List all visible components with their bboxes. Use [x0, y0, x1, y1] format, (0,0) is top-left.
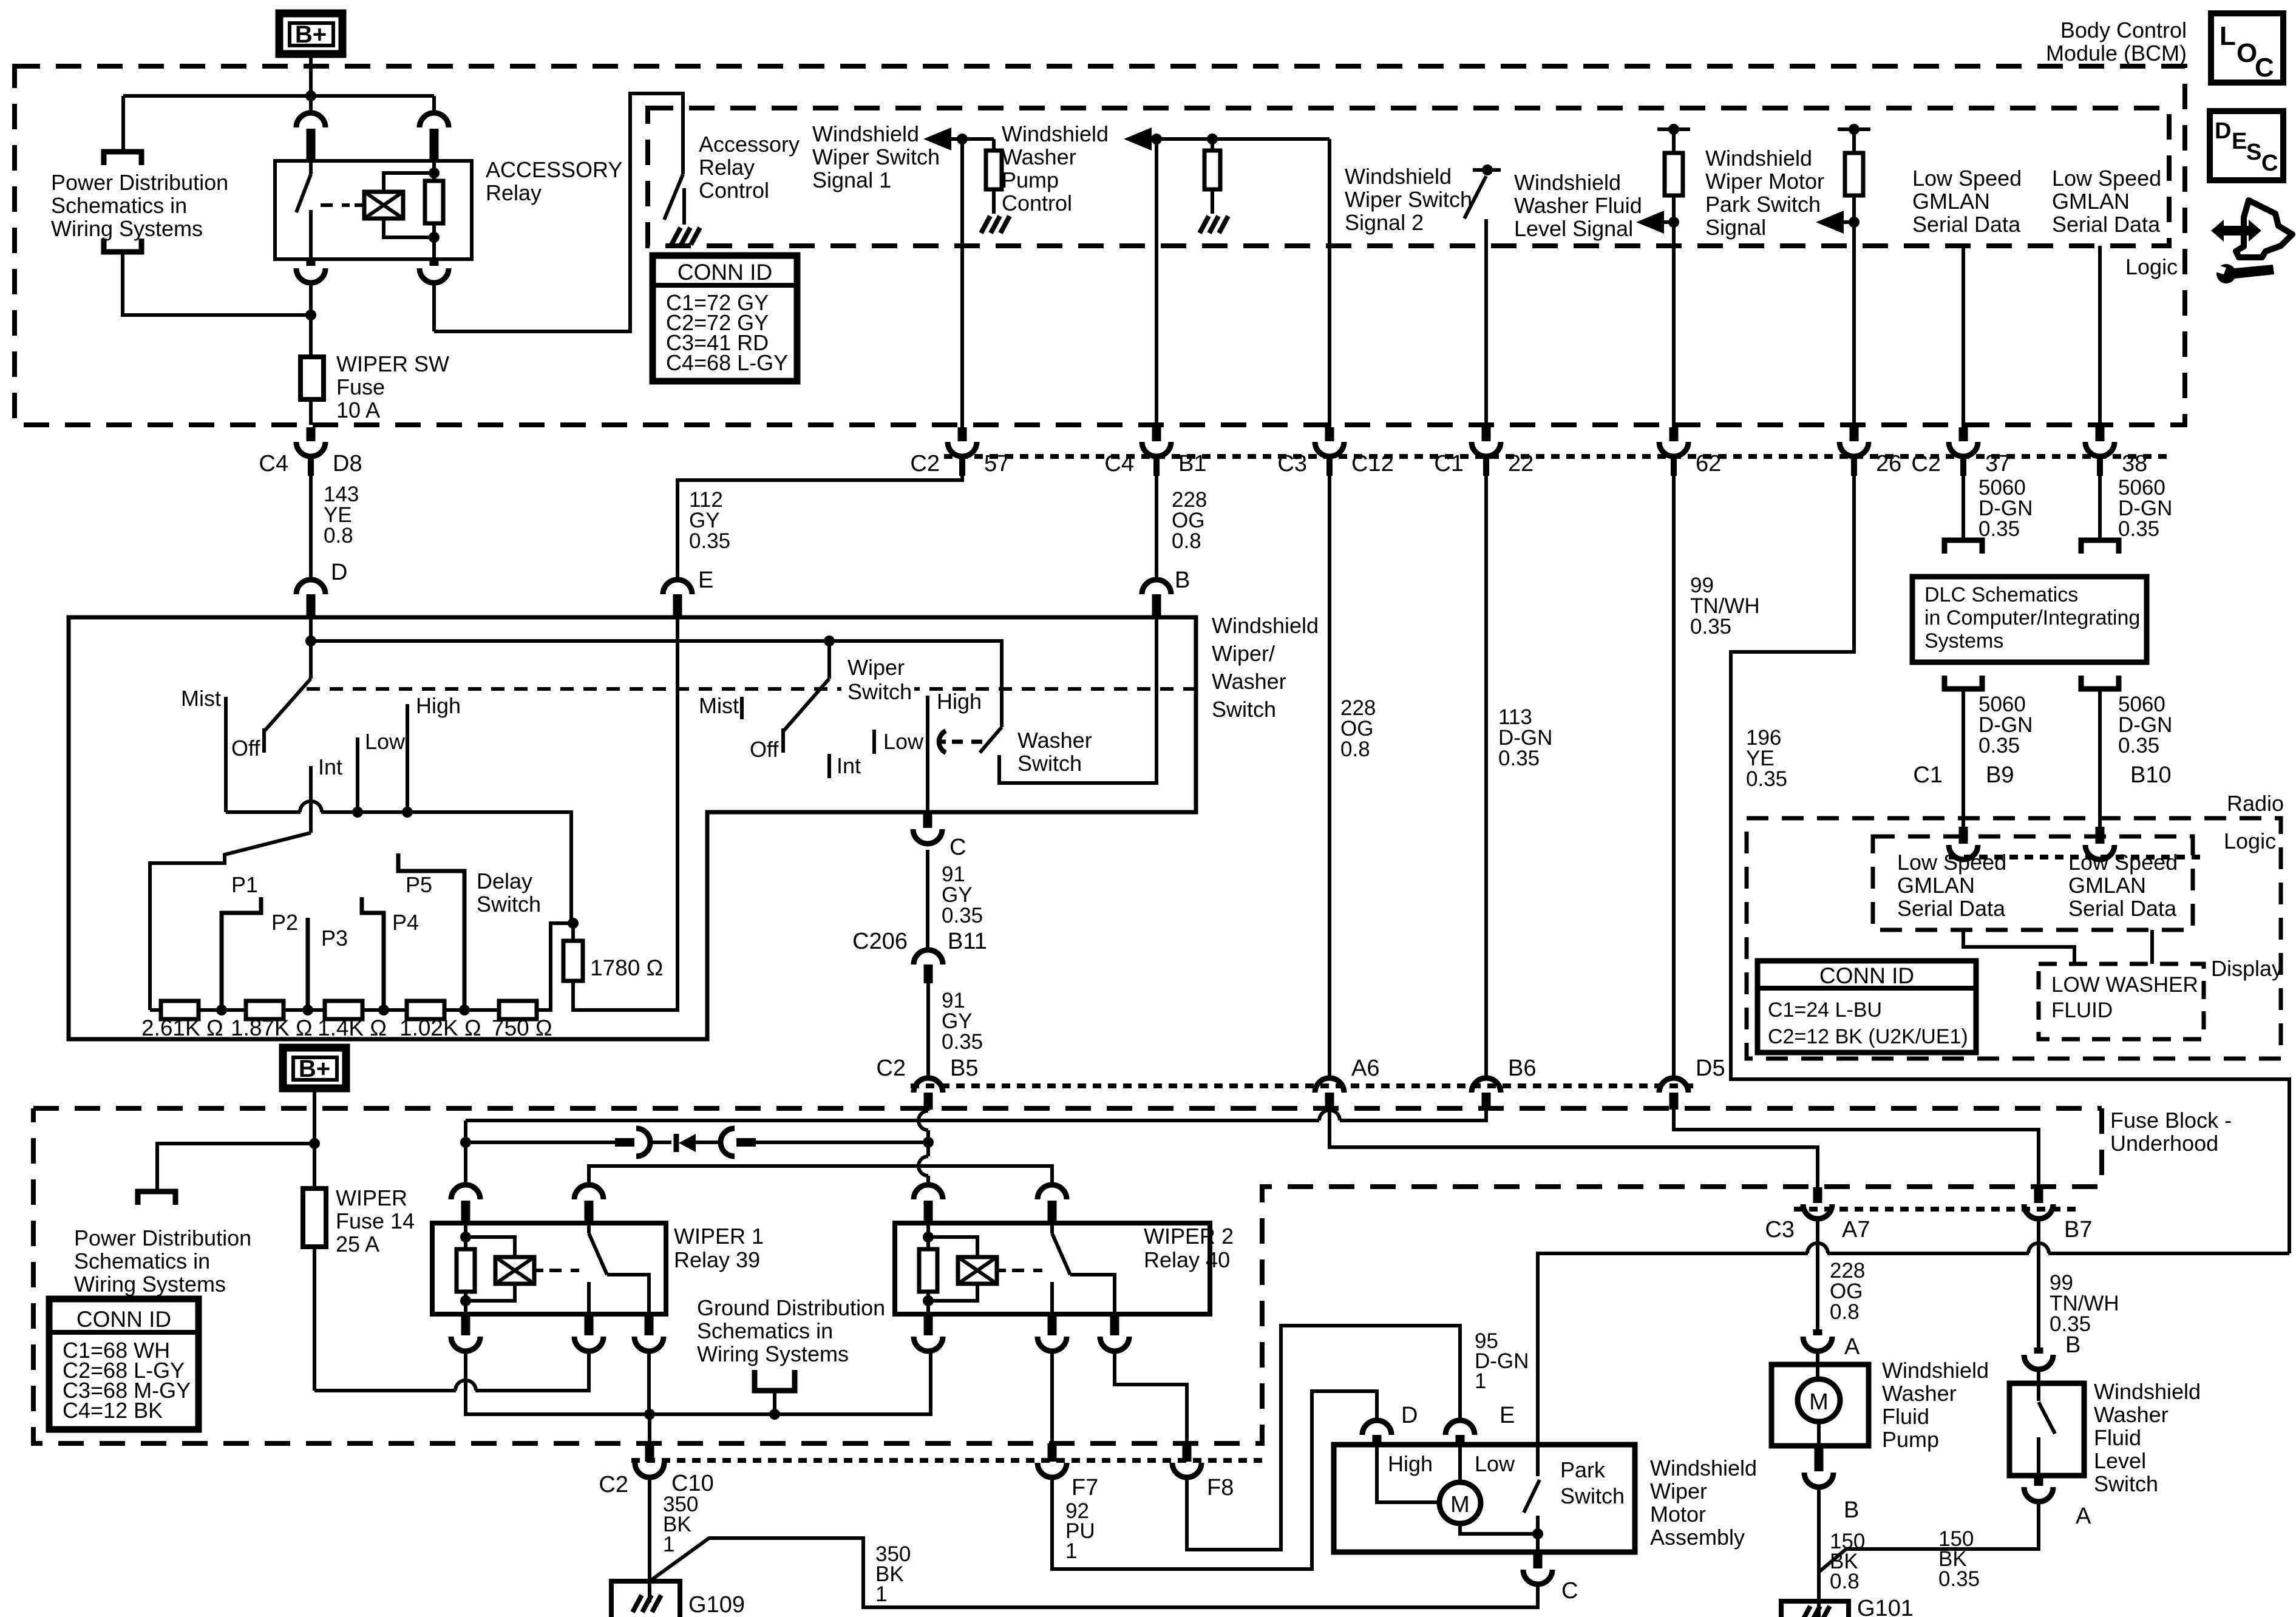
svg-text:C1: C1 [1434, 451, 1464, 476]
svg-text:P4: P4 [392, 910, 419, 935]
contact High right [926, 696, 929, 812]
svg-text:P2: P2 [271, 910, 298, 935]
radio connector dotted line [1949, 855, 2204, 859]
connector A (level switch) [2034, 1476, 2043, 1486]
relay WIPER 1 coil pin top connector [451, 1185, 480, 1199]
svg-text:Wiring Systems: Wiring Systems [74, 1272, 226, 1297]
svg-text:Schematics in: Schematics in [74, 1249, 210, 1273]
arrow park switch signal [1816, 211, 1844, 234]
washer fluid level switch box [2009, 1383, 2084, 1476]
wire 99 TN/WH 0.35 to D5 [1672, 476, 1676, 1078]
fuse block bottom connector dotted line [631, 1458, 1262, 1463]
svg-text:M: M [1450, 1492, 1470, 1517]
wiper switch linkage dashed [307, 687, 1205, 691]
svg-text:Wiring Systems: Wiring Systems [697, 1341, 849, 1366]
svg-text:B1: B1 [1178, 451, 1206, 476]
switch wiper switch signal 2 [1473, 168, 1501, 172]
wire park switch feed (196 YE) [1538, 1253, 1808, 1445]
svg-text:Wiper Switch: Wiper Switch [1345, 187, 1472, 212]
relay WIPER 1 switch pin top connector [574, 1185, 603, 1199]
svg-text:38: 38 [2122, 451, 2147, 476]
relay WIPER 2 linkage dashed [1012, 1269, 1042, 1272]
svg-text:1: 1 [663, 1533, 674, 1556]
relay WIPER 1 Relay 39 box [432, 1223, 666, 1314]
connector C (wiper/washer switch) [923, 812, 932, 828]
svg-text:C12: C12 [1351, 451, 1394, 476]
svg-text:Windshield: Windshield [1212, 613, 1319, 638]
svg-text:Wiper: Wiper [1650, 1479, 1707, 1503]
svg-text:Low Speed: Low Speed [1912, 166, 2022, 191]
box DLC Schematics [1912, 577, 2147, 662]
svg-text:WIPER SW: WIPER SW [336, 351, 449, 376]
relay WIPER 1 switch contact [587, 1282, 591, 1314]
svg-text:Mist: Mist [181, 686, 221, 711]
svg-text:Int: Int [837, 753, 861, 778]
connector F7 [1048, 1443, 1057, 1462]
wire A6 to A7 [1330, 1108, 1818, 1187]
DLC reference bracket top left [1944, 540, 1982, 554]
svg-text:GMLAN: GMLAN [2068, 873, 2146, 898]
wire 113 D-GN 0.35 to B6 [1484, 476, 1488, 1078]
power distribution reference bracket 2 [138, 1192, 175, 1205]
svg-text:Signal 2: Signal 2 [1345, 210, 1424, 235]
svg-text:Schematics in: Schematics in [697, 1318, 833, 1343]
wire relay1 coil top riser [464, 1120, 467, 1185]
svg-text:Radio: Radio [2227, 791, 2284, 816]
svg-text:0.8: 0.8 [1830, 1300, 1860, 1324]
connector F8 [1183, 1443, 1192, 1462]
connector A (washer pump) [1813, 1329, 1822, 1335]
connector E (wiper/washer switch) [663, 580, 692, 594]
wire to power distribution reference 2 [157, 1144, 314, 1190]
ground G109 [611, 1581, 680, 1617]
relay WIPER 2 output pin bottom connector [1110, 1314, 1119, 1335]
BCM inner dashed box [648, 108, 2169, 246]
svg-text:C: C [949, 835, 966, 860]
svg-text:0.35: 0.35 [689, 529, 730, 553]
svg-text:0.35: 0.35 [1938, 1567, 1980, 1591]
wire washer pump control to C12 [1328, 139, 1331, 432]
label Wiper Switch [841, 657, 914, 708]
connector B (washer fluid level switch) [2034, 1347, 2043, 1354]
node park switch junction [1532, 1528, 1543, 1539]
svg-text:Fuse Block -: Fuse Block - [2110, 1108, 2232, 1133]
delay chain jog [537, 923, 573, 1010]
wire B+ bottom to junction [313, 1088, 316, 1144]
svg-text:Display: Display [2211, 956, 2283, 981]
wire 143 YE 0.8 [309, 476, 313, 578]
wire B+ to relay bus [309, 54, 313, 96]
wire 228 OG 0.8 (washer pump) [1155, 476, 1158, 578]
park switch contact (top) [1536, 1445, 1540, 1476]
svg-text:S: S [2246, 140, 2261, 165]
svg-text:0.35: 0.35 [942, 904, 983, 927]
svg-text:Windshield: Windshield [1882, 1358, 1989, 1383]
wire 95 D-GN 1 (F8 to motor Low) [1187, 1326, 1460, 1550]
wire B6 113 D-GN to relay coils [1340, 1108, 1486, 1120]
wiper motor assembly box [1334, 1445, 1635, 1552]
motor M (wiper) [1439, 1482, 1481, 1524]
svg-text:P1: P1 [231, 872, 258, 897]
ground (accessory relay control) [671, 228, 681, 245]
svg-text:10 A: 10 A [336, 398, 380, 422]
resistor washer fluid level signal [1665, 153, 1683, 195]
node delay 1780 junction [568, 918, 579, 929]
connector B (wiper/washer switch) [1142, 580, 1171, 594]
Fuse Block - Underhood dashed box [33, 1106, 2102, 1111]
wiper switch bus (left pole) [226, 810, 301, 814]
svg-text:0.35: 0.35 [1498, 747, 1540, 770]
svg-text:C3: C3 [1277, 451, 1307, 476]
svg-text:Windshield: Windshield [1345, 164, 1452, 189]
relay WIPER 1 coil [495, 1257, 534, 1284]
wire D5 to B7 [1674, 1108, 2039, 1187]
wire 150 BK 0.8 to G101 [1817, 1487, 1821, 1617]
switch accessory relay control blade [664, 174, 683, 220]
svg-text:CONN ID: CONN ID [1819, 963, 1914, 988]
power symbol B+ (top) [279, 13, 342, 54]
ground (signal 1) [981, 216, 990, 233]
DLC reference bracket bottom left [1944, 676, 1982, 689]
svg-text:P3: P3 [321, 926, 348, 951]
wire relay2 output to F8 [1115, 1352, 1187, 1445]
wire 350 BK 1 branch (park switch) [650, 1538, 1538, 1607]
washer fluid level signal input [1657, 127, 1690, 131]
node fuse bus junction [305, 310, 316, 320]
node park switch signal junction [1849, 217, 1860, 228]
svg-text:Park Switch: Park Switch [1705, 192, 1821, 217]
connector half (diode line right) [721, 1128, 735, 1156]
contact Off right [781, 728, 785, 753]
svg-text:Off: Off [750, 737, 779, 762]
svg-text:P5: P5 [406, 872, 432, 897]
svg-text:D: D [1401, 1403, 1418, 1428]
contact Mist right [740, 697, 744, 719]
node washer fluid level junction [1668, 217, 1679, 228]
wire 196 YE 0.35 (park switch signal) [1731, 476, 2289, 1253]
svg-text:Wiper Motor: Wiper Motor [1705, 169, 1824, 194]
svg-text:Serial Data: Serial Data [2068, 896, 2177, 921]
svg-text:1: 1 [875, 1582, 887, 1606]
svg-text:FLUID: FLUID [2051, 998, 2113, 1022]
wire relay1 coil to ground bus [466, 1352, 642, 1414]
svg-text:Accessory: Accessory [699, 132, 800, 157]
connector accessory relay pin 4 (bottom right) [430, 259, 439, 266]
table CONN ID (radio) [1758, 961, 1976, 1053]
wire 92 PU 1 (F7 to motor High) [1052, 1391, 1377, 1569]
svg-text:Module (BCM): Module (BCM) [2046, 41, 2187, 66]
table CONN ID (BCM) [653, 256, 797, 381]
svg-text:B5: B5 [950, 1056, 978, 1081]
fuse WIPER Fuse 14 25A [313, 1144, 316, 1188]
relay WIPER 1 coil pin bottom connector [461, 1314, 470, 1335]
svg-text:C: C [1561, 1578, 1578, 1604]
relay WIPER 2 switch blade [1050, 1223, 1054, 1233]
svg-text:Wiper Switch: Wiper Switch [812, 144, 940, 169]
wire 91 GY 0.35 (switch C to C206) [926, 850, 929, 949]
svg-text:C2=12 BK (U2K/UE1): C2=12 BK (U2K/UE1) [1768, 1025, 1968, 1048]
svg-text:GMLAN: GMLAN [2052, 189, 2130, 214]
svg-text:Power Distribution: Power Distribution [74, 1225, 251, 1250]
connector half (diode line left) [636, 1128, 650, 1156]
washer switch blade [980, 727, 1002, 753]
svg-text:1.02K Ω: 1.02K Ω [399, 1015, 481, 1040]
svg-text:ACCESSORY: ACCESSORY [486, 157, 622, 182]
svg-text:High: High [1388, 1451, 1433, 1476]
wire to power distribution reference [121, 96, 125, 152]
resistor 1.87K [246, 1001, 284, 1019]
svg-text:1780 Ω: 1780 Ω [590, 955, 663, 980]
diode (relay coil suppression) [650, 1141, 671, 1144]
svg-text:C4=68 L-GY: C4=68 L-GY [666, 350, 788, 375]
svg-text:0.35: 0.35 [1978, 734, 2020, 758]
svg-text:High: High [416, 693, 461, 718]
svg-text:B10: B10 [2130, 762, 2172, 788]
relay WIPER 1 coil loop [466, 1237, 515, 1301]
wire signal 1 to connector [960, 139, 964, 432]
relay WIPER 2 switch pin bottom connector [1048, 1314, 1057, 1335]
svg-text:Switch: Switch [1017, 751, 1082, 776]
svg-text:A: A [1844, 1334, 1860, 1360]
svg-text:Washer: Washer [1882, 1381, 1957, 1406]
svg-text:Wiring Systems: Wiring Systems [51, 216, 203, 241]
svg-text:0.35: 0.35 [942, 1030, 983, 1054]
Body Control Module (BCM) dashed box [15, 66, 2185, 425]
fuse block top connector dotted line [911, 1083, 1700, 1088]
contact Low left [356, 737, 359, 812]
icon LOC box [2211, 13, 2283, 83]
accessory relay coil [364, 192, 403, 219]
wire GMLAN 37 from logic [1961, 246, 1965, 432]
wire 228 OG 0.8 to A6 [1328, 476, 1331, 1078]
svg-text:B+: B+ [295, 21, 327, 48]
resistor 1.02K [407, 1001, 444, 1019]
wire fuse to wiper relay 1 common [314, 1389, 456, 1392]
washer switch contact right [999, 617, 1156, 783]
park switch signal input [1838, 127, 1870, 131]
wire motor Low input [1458, 1445, 1462, 1483]
svg-text:Windshield: Windshield [2094, 1379, 2201, 1404]
svg-text:Off: Off [231, 736, 260, 761]
svg-text:Serial Data: Serial Data [2052, 212, 2161, 237]
svg-text:Relay 39: Relay 39 [674, 1247, 760, 1272]
node signal 1 junction [957, 134, 968, 144]
svg-text:Level: Level [2094, 1448, 2146, 1473]
wire radio logic to display right [2150, 930, 2154, 964]
svg-text:1.4K Ω: 1.4K Ω [318, 1015, 387, 1040]
svg-text:GMLAN: GMLAN [1897, 873, 1975, 898]
wire feed bus to right pole [311, 641, 1002, 727]
radio logic dashed box [1873, 836, 2193, 930]
svg-text:0.8: 0.8 [1830, 1570, 1860, 1593]
svg-text:C: C [2261, 151, 2278, 176]
resistor 1.4K [325, 1001, 362, 1019]
svg-text:WIPER: WIPER [336, 1185, 407, 1210]
svg-text:F7: F7 [1072, 1475, 1098, 1500]
svg-text:Washer: Washer [1017, 728, 1092, 753]
svg-text:0.8: 0.8 [324, 524, 353, 547]
accessory relay switch contact [309, 210, 313, 259]
svg-text:GMLAN: GMLAN [1912, 189, 1990, 214]
washer switch contact left [939, 731, 946, 753]
wiper switch blade left [264, 679, 311, 731]
svg-text:F8: F8 [1207, 1475, 1234, 1500]
svg-text:C4=12 BK: C4=12 BK [63, 1398, 163, 1423]
svg-text:Low Speed: Low Speed [1897, 850, 2006, 875]
connector row dotted (A7 B7) [1794, 1207, 2076, 1212]
resistor signal 1 pull-up [992, 139, 996, 151]
svg-text:750 Ω: 750 Ω [492, 1015, 552, 1040]
tap P2 P3 [306, 918, 310, 1010]
svg-text:Control: Control [1002, 191, 1072, 215]
svg-text:Washer: Washer [2094, 1402, 2169, 1427]
svg-text:C2: C2 [876, 1056, 906, 1081]
wire diode line to B5 junction [756, 1141, 928, 1144]
svg-text:D8: D8 [333, 451, 362, 476]
svg-text:B7: B7 [2064, 1217, 2092, 1242]
accessory relay control contact [682, 188, 686, 225]
svg-text:Switch: Switch [847, 679, 912, 704]
relay WIPER 2 coil pin bottom connector [924, 1314, 933, 1335]
relay WIPER 2 coil loop [928, 1237, 977, 1301]
table CONN ID (fuse block) [49, 1299, 199, 1429]
wire 91 GY 0.35 (C206 to B5) [926, 983, 930, 1078]
svg-text:2.61K Ω: 2.61K Ω [141, 1015, 223, 1040]
wire relay2 switch contact to F7 [1050, 1352, 1054, 1445]
svg-text:Relay 40: Relay 40 [1144, 1247, 1230, 1272]
node right pole feed [824, 636, 835, 646]
svg-text:D: D [331, 560, 347, 585]
svg-text:Relay: Relay [486, 180, 542, 205]
svg-text:M: M [1809, 1389, 1829, 1415]
wire 5060 D-GN 0.35 (38) [2098, 476, 2102, 539]
svg-text:E: E [698, 568, 713, 593]
display dashed box [2039, 964, 2204, 1039]
svg-text:Switch: Switch [1212, 697, 1276, 722]
svg-text:C206: C206 [852, 929, 908, 954]
svg-text:Serial Data: Serial Data [1912, 212, 2021, 237]
park switch blade [1524, 1480, 1540, 1513]
relay WIPER 1 output branch [607, 1275, 649, 1314]
svg-text:in Computer/Integrating: in Computer/Integrating [1924, 606, 2140, 629]
svg-text:Underhood: Underhood [2110, 1131, 2218, 1156]
contact Low right [872, 730, 876, 754]
svg-text:1: 1 [1065, 1539, 1077, 1563]
relay WIPER 2 coil pin top connector [914, 1185, 943, 1199]
svg-text:Mist: Mist [699, 693, 739, 718]
svg-text:A: A [2076, 1503, 2091, 1529]
node Low junction [352, 807, 363, 818]
arrow wiper switch signal 1 [923, 127, 951, 151]
svg-text:E: E [1500, 1403, 1515, 1428]
washer switch linkage dashed [952, 740, 985, 744]
svg-text:Low Speed: Low Speed [2068, 850, 2178, 875]
svg-text:B: B [1175, 568, 1190, 593]
ground (washer pump control) [1200, 216, 1209, 233]
svg-text:C: C [2255, 53, 2274, 83]
svg-text:CONN ID: CONN ID [678, 260, 772, 285]
motor M (washer pump) [1816, 1364, 1819, 1380]
relay WIPER 2 Relay 40 box [895, 1223, 1210, 1314]
svg-text:C2: C2 [1911, 451, 1941, 476]
wire 228 OG 0.8 (A7 to pump) [1816, 1219, 1819, 1333]
accessory relay coil loop [384, 173, 434, 237]
connector row dotted line (BCM) [944, 454, 2170, 459]
svg-text:0.8: 0.8 [1172, 529, 1201, 553]
wire GMLAN 38 from logic [2098, 246, 2102, 432]
node washer pump control junction 1 [1151, 134, 1162, 144]
radio dashed box [1747, 818, 2281, 1059]
svg-text:WIPER 1: WIPER 1 [674, 1224, 764, 1249]
ground G101 [1781, 1601, 1849, 1617]
svg-text:C3: C3 [1765, 1217, 1795, 1242]
svg-text:Systems: Systems [1924, 629, 2003, 653]
fuse WIPER SW 10A [301, 357, 324, 399]
svg-text:0.35: 0.35 [2118, 517, 2159, 541]
svg-text:Body Control: Body Control [2060, 18, 2187, 42]
svg-text:Pump: Pump [1002, 168, 1059, 192]
svg-text:Signal 1: Signal 1 [812, 168, 891, 192]
ground distribution reference bracket [755, 1370, 795, 1391]
svg-text:Fluid: Fluid [1882, 1404, 1929, 1429]
svg-text:Washer: Washer [1212, 669, 1286, 694]
svg-text:Windshield: Windshield [812, 121, 919, 146]
wire switch common link (relay1 to relay2) [589, 1166, 1052, 1185]
svg-text:C4: C4 [259, 451, 288, 476]
wire 99 TN/WH 0.35 (B7 to level switch) [2037, 1219, 2040, 1351]
svg-text:Washer: Washer [1002, 144, 1076, 169]
wire B+ to WIPER SW fuse [309, 315, 313, 359]
svg-text:Fuse: Fuse [336, 375, 385, 399]
resistor park switch signal [1845, 153, 1863, 195]
node accessory relay coil bottom [429, 232, 440, 243]
svg-text:Switch: Switch [1560, 1483, 1625, 1508]
svg-text:0.35: 0.35 [1746, 767, 1787, 791]
wiper switch blade right [827, 641, 831, 679]
node ground reference junction [769, 1409, 780, 1420]
wire B5 91 GY down to relay2 coil [926, 1108, 930, 1111]
svg-text:Switch: Switch [477, 892, 541, 917]
wire accessory relay control loop [434, 93, 683, 331]
svg-text:C1: C1 [1913, 762, 1943, 788]
svg-text:Serial Data: Serial Data [1897, 896, 2006, 921]
arrow washer pump control [1124, 127, 1152, 151]
svg-text:Motor: Motor [1650, 1502, 1706, 1527]
svg-text:Switch: Switch [2094, 1471, 2158, 1496]
wire 5060 D-GN 0.35 to B9 [1961, 689, 1965, 827]
relay WIPER 1 switch pin bottom connector [585, 1314, 594, 1335]
level switch blade [2039, 1402, 2055, 1434]
accessory relay switch blade [309, 161, 313, 174]
node P5 tap [444, 1008, 499, 1012]
svg-text:Logic: Logic [2125, 254, 2178, 279]
svg-text:B: B [2065, 1332, 2080, 1358]
contact Int right [827, 754, 831, 778]
svg-text:Windshield: Windshield [1514, 170, 1621, 195]
relay ACCESSORY Relay box [275, 161, 472, 259]
svg-text:0.35: 0.35 [2118, 734, 2159, 758]
wire switch feed from D [309, 617, 313, 679]
svg-text:Windshield: Windshield [1650, 1456, 1757, 1480]
connector B10 (radio) [2096, 827, 2105, 844]
level switch contact bottom [2037, 1437, 2040, 1476]
resistor 1780 ohm [571, 923, 575, 941]
contact Off left [262, 728, 266, 753]
relay WIPER 2 output branch [1070, 1275, 1115, 1314]
resistor 2.61K [150, 1008, 161, 1012]
park switch lower contact [1536, 1516, 1540, 1552]
svg-text:37: 37 [1985, 451, 2011, 476]
